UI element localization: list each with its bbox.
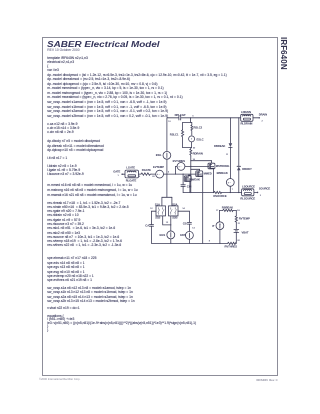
svg-text:14: 14: [182, 207, 185, 210]
svg-text:7: 7: [232, 189, 234, 191]
inductor LGATE / resistor RLGATE block: [125, 165, 139, 182]
wire drain bus node 16: [190, 156, 196, 192]
node SOURCE terminal: [254, 187, 271, 198]
inductor LSOURCE / resistor RLSOURCE block: [240, 184, 255, 200]
node GATE terminal: [113, 169, 125, 177]
wire EBREAK to node 7: [229, 186, 231, 192]
wire IT to rail: [219, 230, 221, 244]
svg-text:IT: IT: [212, 224, 215, 228]
resistor RSLC2: [191, 122, 203, 135]
wire bottom rail node 8: [152, 241, 228, 244]
wire SLC riser: [190, 118, 192, 123]
wire ESG to node 6: [166, 159, 168, 174]
svg-text:10: 10: [168, 121, 171, 123]
resistor RSOURCE: [213, 191, 226, 198]
svg-text:MMED: MMED: [204, 172, 212, 176]
svg-text:ESLC: ESLC: [197, 137, 204, 141]
op-amp EBREAK: [217, 171, 235, 186]
wire IT branch: [218, 210, 220, 221]
capacitor CA: [145, 211, 156, 243]
svg-text:RSOURCE: RSOURCE: [213, 194, 226, 198]
wire MWEAK drain elbow: [189, 175, 192, 176]
wire SLC box bottom: [183, 142, 196, 150]
svg-text:13: 13: [166, 222, 169, 224]
battery VBAT: [234, 222, 249, 243]
svg-text:LGATE: LGATE: [126, 165, 135, 169]
footer texts: [39, 378, 80, 381]
capacitor CB: [178, 211, 195, 231]
svg-text:RSLC2: RSLC2: [194, 125, 203, 129]
svg-text:MWEAK: MWEAK: [190, 178, 200, 182]
svg-text:9: 9: [139, 176, 141, 178]
op-amp EGS: [160, 231, 175, 239]
op-amp EVTEMP: [153, 165, 164, 178]
resistor RBREAK: [216, 206, 240, 212]
diode DBREAK: [214, 117, 232, 156]
svg-text:S1B: S1B: [155, 216, 160, 220]
svg-text:50: 50: [193, 147, 196, 149]
wire switch network riser: [162, 174, 172, 206]
svg-text:12: 12: [150, 208, 153, 210]
node 9: [139, 174, 142, 178]
svg-text:LDRAIN: LDRAIN: [241, 110, 251, 114]
wire EVTHRES to MSTRONG gate node 21: [185, 166, 209, 167]
svg-text:18: 18: [237, 210, 240, 212]
svg-text:CA: CA: [145, 224, 149, 228]
svg-text:RVTHRES: RVTHRES: [225, 244, 238, 248]
svg-text:5: 5: [192, 116, 194, 118]
wire EGS riser: [170, 216, 172, 231]
svg-text:RLSOURCE: RLSOURCE: [240, 197, 255, 201]
svg-text:6: 6: [168, 172, 170, 174]
diode DBODY: [237, 117, 252, 192]
svg-text:ESG: ESG: [156, 153, 162, 157]
svg-text:RGATE: RGATE: [142, 168, 151, 172]
svg-text:EDS: EDS: [180, 233, 186, 237]
svg-text:20: 20: [152, 176, 155, 178]
capacitor DPLCAP: [175, 113, 186, 120]
svg-text:17: 17: [216, 210, 219, 212]
resistor RGATE: [141, 168, 151, 175]
inductor LDRAIN / resistor RLDRAIN block: [241, 110, 254, 126]
svg-text:22: 22: [237, 240, 240, 242]
transistor MMED: [196, 171, 212, 177]
wire EVTHRES riser: [176, 166, 178, 174]
svg-text:RVTEMP: RVTEMP: [239, 217, 250, 221]
resistor RSLC1: [170, 122, 191, 147]
resistor RVTEMP: [235, 210, 250, 225]
wire node 6 gate bus: [164, 172, 196, 175]
op-amp ESLC: [189, 136, 204, 142]
svg-text:S1A: S1A: [155, 202, 160, 206]
svg-text:DBREAK: DBREAK: [214, 144, 225, 148]
svg-text:21: 21: [238, 223, 241, 225]
svg-text:3: 3: [260, 195, 262, 197]
svg-text:CB: CB: [183, 221, 187, 225]
svg-text:DBODY: DBODY: [242, 167, 252, 171]
svg-text:EVTEMP: EVTEMP: [153, 165, 164, 169]
switch S2A / S2B box: [169, 202, 186, 219]
svg-text:DPLCAP: DPLCAP: [175, 113, 186, 117]
svg-text:EBREAK: EBREAK: [217, 171, 228, 175]
svg-text:+ -: + -: [157, 173, 160, 176]
node 5: [190, 116, 194, 119]
vertical part number IRF640N: [279, 37, 288, 70]
svg-text:1: 1: [118, 175, 120, 177]
svg-text:MSTRONG: MSTRONG: [216, 164, 230, 168]
wire MMED drain elbow: [190, 169, 199, 171]
svg-text:S2B: S2B: [172, 216, 177, 220]
svg-text:S2A: S2A: [172, 202, 177, 206]
wire DBREAK to EBREAK: [229, 147, 231, 178]
svg-text:EGS: EGS: [160, 233, 166, 237]
resistor RDRAIN: [190, 148, 203, 157]
current source IT: [212, 222, 224, 230]
capacitor CIN: [181, 174, 191, 192]
wire ESG riser from node 10: [167, 118, 172, 152]
svg-text:SOURCE: SOURCE: [259, 187, 271, 191]
wire EGS to rail: [170, 239, 172, 244]
wire source rail node 8: [183, 192, 214, 193]
title: [47, 40, 160, 49]
svg-text:EVTHRES: EVTHRES: [173, 159, 186, 163]
wire top rail node 5: [167, 117, 241, 119]
op-amp ESG: [156, 151, 171, 159]
wire MSTRONG source riser: [213, 168, 215, 192]
wire to EVTEMP: [151, 174, 156, 178]
wire MMED source to bottom riser: [201, 176, 202, 243]
op-amp EDS: [180, 231, 193, 239]
wire S1 bottom link node 13: [163, 216, 172, 226]
svg-text:LSOURCE: LSOURCE: [242, 184, 255, 188]
svg-text:RDRAIN: RDRAIN: [193, 152, 203, 156]
svg-text:RLDRAIN: RLDRAIN: [241, 122, 253, 126]
wire MWEAK source: [189, 181, 191, 193]
transistor MSTRONG: [208, 163, 229, 169]
svg-text:11: 11: [226, 154, 229, 156]
svg-text:RSLC1: RSLC1: [170, 132, 179, 136]
wire EDS to rail: [188, 239, 190, 243]
node DRAIN terminal: [253, 113, 267, 123]
svg-text:DRAIN: DRAIN: [259, 113, 267, 117]
svg-text:RBREAK: RBREAK: [222, 206, 233, 210]
svg-text:2: 2: [262, 120, 264, 122]
page border frame: [42, 37, 278, 376]
svg-text:RLGATE: RLGATE: [126, 179, 137, 183]
wire MSTRONG drain elbow: [191, 161, 212, 163]
svg-text:GATE: GATE: [113, 169, 120, 173]
op-amp EVTHRES: [173, 159, 186, 170]
svg-text:VBAT: VBAT: [242, 230, 249, 234]
SABER netlist code listing: [47, 56, 88, 72]
switch S1A / S1B box: [150, 202, 165, 219]
resistor RVTHRES: [225, 242, 238, 248]
transistor MWEAK: [184, 176, 200, 182]
svg-text:8: 8: [209, 241, 211, 243]
svg-text:+ -: + -: [178, 165, 181, 168]
svg-text:14: 14: [192, 226, 195, 229]
wire node 7: [222, 189, 242, 193]
svg-text:+ -: + -: [228, 181, 231, 184]
